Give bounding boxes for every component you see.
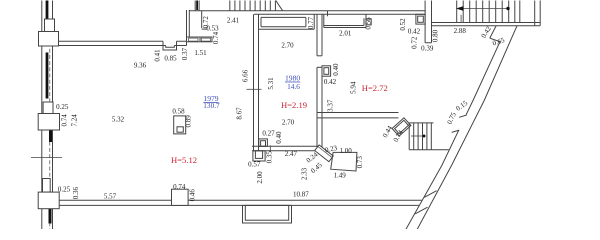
closet inner right — [305, 17, 307, 26]
wall top horizontal inner — [254, 13, 426, 15]
svg-text:0.58: 0.58 — [172, 107, 185, 115]
stair2 enclosure wall left line — [194, 1, 196, 11]
svg-text:5.32: 5.32 — [112, 116, 125, 124]
svg-text:0.42: 0.42 — [324, 78, 337, 86]
svg-text:2.41: 2.41 — [227, 17, 240, 25]
svg-text:2.00: 2.00 — [256, 171, 264, 184]
landing wall left pair — [515, 1, 520, 23]
room1980 wall right outer — [316, 14, 318, 147]
shaft 0.58x0.89 outer — [174, 116, 186, 134]
window sill band top-left outer — [187, 37, 213, 42]
svg-text:2.33: 2.33 — [301, 167, 309, 180]
svg-text:0.74: 0.74 — [61, 114, 69, 127]
closet inner bottom — [261, 26, 306, 28]
niche below room1980 inner — [255, 151, 262, 159]
window sill inner left — [189, 38, 199, 41]
room1980 door tick bottom — [317, 66, 322, 68]
niche C 0.42 outer — [416, 14, 425, 24]
svg-text:9.36: 9.36 — [134, 62, 147, 70]
svg-text:0.56: 0.56 — [365, 17, 373, 30]
room1980 wall left outer — [253, 14, 255, 150]
wall bottom outer — [59, 199, 422, 201]
svg-text:0.53: 0.53 — [206, 25, 219, 33]
svg-text:H=5.12: H=5.12 — [171, 155, 197, 165]
svg-text:2.01: 2.01 — [339, 30, 352, 38]
stair3 left edge — [408, 123, 410, 150]
wall left black bar upper-mid — [46, 53, 49, 99]
niche bottom inner — [245, 205, 288, 220]
svg-text:1.49: 1.49 — [333, 172, 346, 180]
stair1 arrow dot — [506, 7, 509, 10]
vent box 0.40 inner — [324, 68, 329, 75]
svg-text:0.35: 0.35 — [266, 151, 274, 164]
vent box 0.40 outer — [322, 66, 331, 76]
svg-text:0.36: 0.36 — [72, 186, 80, 199]
svg-text:2.47: 2.47 — [285, 150, 298, 158]
closet inner left — [260, 17, 262, 26]
svg-text:0.46: 0.46 — [188, 189, 196, 202]
wall vertical at x186 — [186, 10, 188, 46]
stair1 arrowhead — [456, 6, 464, 11]
stair1 bottom wall outer — [432, 22, 541, 24]
tilted duct 0.44x0.74 — [392, 118, 411, 136]
pilaster bottom mid — [172, 189, 189, 205]
closet outer right — [313, 14, 315, 29]
pilaster left top — [39, 32, 59, 47]
svg-text:2.70: 2.70 — [282, 118, 295, 126]
svg-text:130.7: 130.7 — [203, 101, 220, 110]
wall left black bar mid — [49, 130, 52, 142]
wall right vertical pair x424-431 — [425, 1, 431, 43]
stair1 treads — [457, 1, 509, 23]
svg-text:0.77: 0.77 — [307, 16, 315, 29]
diagonal wall jog upper — [490, 26, 496, 38]
wall left black bar top — [46, 1, 49, 20]
wall top-left outer line — [59, 40, 187, 42]
wall top horizontal outer — [189, 10, 425, 12]
wall top-left inner line — [59, 45, 187, 47]
room1980 wall right inner — [321, 14, 323, 147]
wall top-right pair — [535, 1, 541, 26]
niche B 2.01 left edge — [323, 14, 325, 27]
stair2 enclosure wall right line — [198, 1, 200, 11]
diagonal wall right line — [417, 26, 517, 230]
niche B 2.01 right inner — [363, 18, 365, 25]
diagonal wall left line — [406, 42, 500, 230]
diagonal wall jog lower — [490, 38, 500, 42]
room1980 door tick top — [317, 55, 322, 57]
svg-text:0.42: 0.42 — [408, 27, 421, 35]
wall vertical at x188.8 — [188, 10, 190, 37]
window sill inner right — [201, 38, 210, 41]
stair1 small tick — [460, 15, 462, 23]
pilaster left bottom small — [43, 179, 51, 193]
svg-text:7.24: 7.24 — [70, 114, 78, 127]
svg-text:1.51: 1.51 — [194, 49, 207, 57]
svg-text:14.6: 14.6 — [287, 82, 300, 91]
wall bottom inner — [59, 204, 419, 206]
svg-text:0.25: 0.25 — [58, 185, 71, 193]
svg-text:H=2.72: H=2.72 — [362, 83, 388, 93]
pilaster left mid — [38, 114, 59, 131]
svg-text:0.72: 0.72 — [411, 36, 419, 49]
stair1 bottom wall inner — [432, 25, 541, 27]
niche C 0.42 inner — [418, 16, 424, 22]
room1980 wall bottom outer — [252, 145, 321, 147]
diagonal wall tick lower — [415, 207, 427, 214]
room1980 corner box inner — [261, 141, 266, 147]
window sill divider — [199, 37, 201, 42]
svg-text:8.67: 8.67 — [236, 107, 244, 120]
niche B 2.01 bottom outer — [324, 27, 366, 29]
niche below room1980 outer — [253, 151, 265, 161]
diagonal wall door tick upper — [459, 115, 467, 117]
svg-text:5.31: 5.31 — [267, 77, 275, 90]
stair3 top edge — [409, 122, 433, 124]
pilaster left bottom — [38, 192, 59, 209]
stair2 enclosure wall fill — [196, 1, 198, 11]
wall top-left door recess inner — [166, 46, 175, 48]
stair3 arrow line — [411, 135, 424, 137]
pilaster left mid small — [43, 102, 53, 114]
closet inner top — [261, 16, 306, 18]
niche B wall tick — [327, 11, 329, 16]
diagonal wall tick upper — [424, 191, 436, 198]
svg-text:1.00: 1.00 — [339, 147, 352, 155]
stair2 diagonal tread — [276, 1, 283, 11]
svg-text:2.70: 2.70 — [281, 41, 294, 49]
niche B 2.01 bottom inner — [324, 25, 364, 27]
stair1 arrow line — [458, 8, 509, 10]
wall left axis dashed — [49, 43, 51, 230]
svg-text:0.80: 0.80 — [432, 29, 440, 42]
svg-text:6.66: 6.66 — [242, 69, 250, 82]
svg-text:0.74: 0.74 — [173, 183, 186, 191]
svg-text:2.88: 2.88 — [454, 27, 467, 35]
tilted duct 0.24x0.45 — [315, 145, 334, 162]
niche B 2.01 right outer — [365, 14, 367, 27]
wall stub 0.72 vertical — [201, 11, 203, 28]
diagonal wall door tick lower — [452, 130, 460, 132]
wall left exterior line outer — [41, 1, 43, 230]
niche bottom outer — [243, 205, 292, 223]
wall left exterior line inner — [52, 1, 54, 230]
svg-text:0.52: 0.52 — [399, 18, 407, 31]
svg-text:0.39: 0.39 — [421, 45, 434, 53]
room1980 wall left inner — [258, 14, 260, 150]
stair3 arrow dot — [423, 135, 426, 138]
stair3 treads — [414, 123, 432, 150]
shaft 0.58x0.89 inner — [177, 127, 183, 132]
niche B sill box — [366, 19, 371, 25]
room1980 wall bottom inner — [252, 150, 321, 152]
stair2 treads — [230, 1, 276, 11]
wall left black bar bottom — [49, 209, 52, 224]
stair3 bottom edge — [409, 149, 449, 151]
svg-text:0.40: 0.40 — [275, 131, 283, 144]
svg-text:H=2.19: H=2.19 — [281, 100, 307, 110]
wall mid-right horizontal lower — [317, 117, 399, 119]
room1980 wall left tick — [247, 88, 262, 90]
svg-text:0.25: 0.25 — [56, 103, 69, 111]
svg-text:0.40: 0.40 — [332, 63, 340, 76]
svg-text:0.85: 0.85 — [164, 55, 177, 63]
wall stub 0.72 foot — [202, 28, 208, 30]
svg-text:5.94: 5.94 — [349, 81, 357, 94]
svg-text:5.57: 5.57 — [104, 193, 117, 201]
svg-text:0.57: 0.57 — [248, 160, 261, 168]
svg-text:0.89: 0.89 — [185, 115, 193, 128]
vent box 1.00x0.73 — [331, 152, 357, 171]
svg-text:0.37: 0.37 — [181, 47, 189, 60]
room1980 corner box outer — [259, 139, 268, 146]
pilaster left top small — [45, 19, 55, 32]
svg-text:3.37: 3.37 — [327, 99, 335, 112]
svg-text:0.41: 0.41 — [154, 49, 162, 62]
wall top-left door recess outer — [163, 41, 177, 50]
wall left section tick — [31, 157, 62, 159]
closet outer bottom — [259, 28, 315, 30]
svg-text:0.73: 0.73 — [356, 156, 364, 169]
svg-text:10.87: 10.87 — [293, 190, 309, 198]
svg-text:0.74: 0.74 — [212, 31, 220, 44]
room1980 bottom wall tick — [269, 145, 271, 151]
wall mid-right horizontal upper — [317, 112, 399, 114]
svg-text:0.27: 0.27 — [262, 130, 275, 138]
